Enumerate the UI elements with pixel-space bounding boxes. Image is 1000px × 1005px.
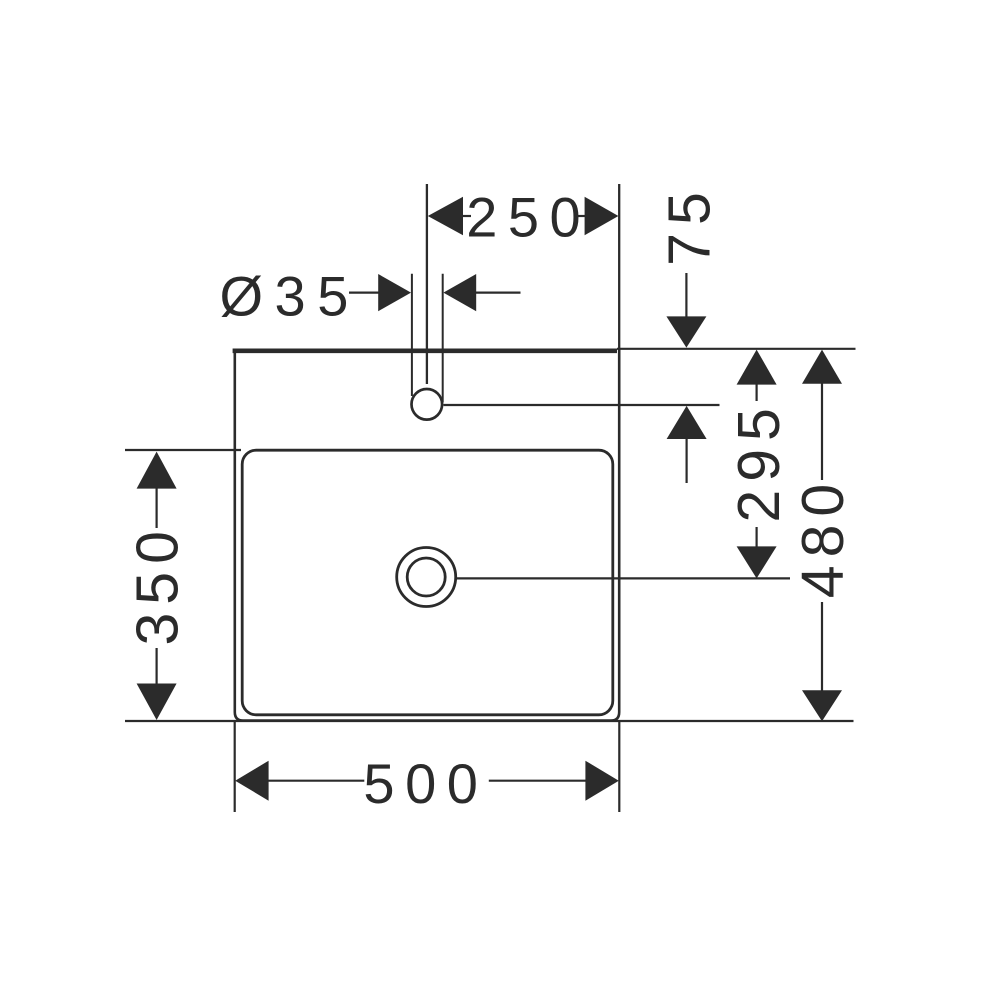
drain leader line — [457, 577, 791, 579]
dim 500 left arrow — [235, 761, 268, 801]
basin outer outline — [233, 349, 620, 721]
dim 480 up arrow — [802, 350, 842, 384]
dim 75 up arrow at hole line — [667, 406, 707, 439]
dim 250 line right segment — [576, 215, 586, 217]
svg-text:Ø35: Ø35 — [220, 264, 360, 327]
faucet hole leader line — [444, 404, 720, 406]
dim 250 left arrow — [428, 197, 463, 235]
dim 500 right extension line — [618, 722, 620, 812]
dim 500 line right segment — [489, 780, 587, 782]
svg-text:350: 350 — [125, 523, 191, 645]
dim 250 right arrow — [585, 197, 619, 235]
svg-text:250: 250 — [466, 186, 591, 249]
dim 75 stem — [685, 273, 687, 317]
dim Ø35 right arrow — [443, 274, 476, 311]
dim 75 lower stem — [685, 438, 687, 483]
dim 480 down arrow — [802, 690, 842, 721]
drain outer circle — [397, 548, 456, 607]
drain inner circle — [407, 558, 445, 596]
faucet hole left tangent line — [411, 274, 413, 396]
svg-text:500: 500 — [363, 752, 488, 815]
svg-text:480: 480 — [790, 476, 856, 598]
dim 295 down arrow — [737, 546, 777, 578]
dim 350 upper stem — [156, 488, 158, 528]
left top extension line — [125, 449, 241, 451]
faucet hole right tangent line — [442, 274, 444, 403]
faucet hole — [412, 389, 443, 420]
svg-text:75: 75 — [657, 184, 723, 266]
dim Ø35 right leader line — [475, 292, 521, 294]
dim 500 left extension line — [234, 722, 236, 812]
top extension line right of basin — [617, 348, 856, 350]
svg-text:295: 295 — [726, 400, 792, 522]
dim 500 right arrow — [585, 761, 618, 801]
dim 480 lower stem — [821, 602, 823, 691]
dim 250 line left segment — [462, 215, 471, 217]
dim 500 line left segment — [268, 780, 365, 782]
dim 350 up arrow — [137, 452, 177, 489]
centerline through faucet hole — [426, 184, 428, 384]
dim 250 extension line right — [618, 184, 620, 350]
dim Ø35 left arrow — [378, 274, 411, 311]
dim 350 down arrow — [137, 684, 177, 721]
bottom extension line — [125, 720, 854, 722]
dim Ø35 left leader line — [349, 292, 379, 294]
dim 295 upper stem — [755, 384, 757, 401]
dim 75 down arrow — [666, 316, 706, 347]
inner bowl — [242, 450, 613, 715]
dim 480 upper stem — [821, 383, 823, 480]
dim 295 up arrow — [737, 350, 777, 385]
dim 350 lower stem — [156, 648, 158, 685]
dim 295 lower stem — [755, 527, 757, 548]
